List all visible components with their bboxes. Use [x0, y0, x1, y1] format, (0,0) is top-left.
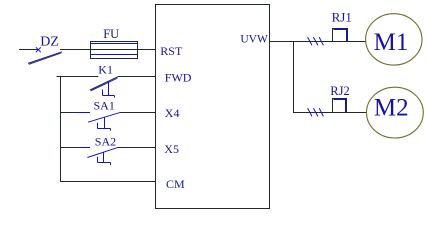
svg-text:UVW: UVW: [240, 33, 268, 45]
breaker DZ contact cross: [36, 47, 41, 52]
contact K1 blade: [90, 77, 118, 90]
wire K1 row left: [57, 76, 99, 78]
motor M1: [366, 14, 422, 65]
svg-text:FWD: FWD: [165, 70, 192, 84]
bus wire left vertical: [60, 76, 62, 182]
svg-text:M2: M2: [374, 95, 409, 122]
svg-text:DZ: DZ: [40, 35, 59, 50]
breaker DZ blade: [28, 52, 62, 64]
svg-text:RJ1: RJ1: [332, 9, 352, 24]
svg-text:K1: K1: [98, 62, 113, 76]
wire M2 branch: [294, 112, 367, 114]
node junction: [293, 41, 295, 113]
svg-text:CM: CM: [166, 177, 185, 191]
svg-text:M1: M1: [374, 29, 409, 56]
svg-text:RJ2: RJ2: [330, 84, 349, 98]
wire through fuse: [91, 49, 137, 51]
wire SA1 row right: [119, 112, 155, 114]
thermal relay RJ1: [333, 29, 348, 42]
thermal relay RJ2: [333, 99, 347, 113]
motor M2: [367, 87, 424, 138]
three-phase slashes M2: [308, 108, 324, 116]
wire fuse to RST: [138, 49, 156, 51]
wire SA2 row left: [61, 147, 80, 149]
wire CM row: [60, 181, 156, 183]
wire DZ to fuse: [60, 49, 91, 51]
three-phase slashes M1: [308, 37, 324, 45]
wire SA2 row right: [117, 147, 155, 149]
inverter box: [156, 5, 270, 209]
svg-text:X5: X5: [164, 142, 179, 156]
switch SA2 actuator: [98, 152, 111, 165]
fuse FU body: [91, 42, 138, 59]
wire UVW output: [270, 41, 366, 43]
svg-text:FU: FU: [103, 27, 119, 41]
switch SA2 blade: [87, 148, 117, 158]
switch SA1 blade: [88, 113, 119, 123]
wire SA1 row left: [61, 112, 76, 114]
switch SA1 actuator: [98, 117, 111, 130]
contact K1 actuator: [103, 81, 115, 97]
svg-text:SA2: SA2: [95, 134, 116, 148]
svg-text:X4: X4: [165, 106, 180, 120]
svg-text:RST: RST: [160, 44, 183, 58]
wire K1 row right: [118, 76, 156, 78]
wire input left: [19, 49, 39, 51]
svg-text:SA1: SA1: [94, 98, 115, 112]
